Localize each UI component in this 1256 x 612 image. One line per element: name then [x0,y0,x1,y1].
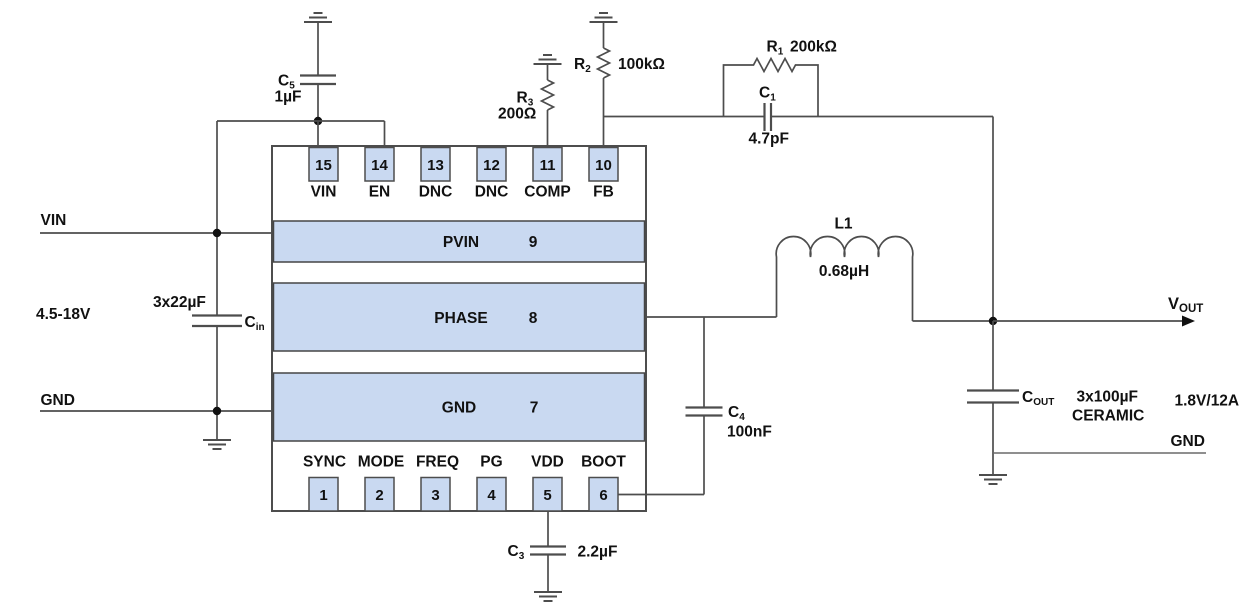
node VIN junction [213,229,221,237]
pin 5 box [533,478,562,512]
wire ground to R2 [603,22,605,48]
svg-text:L1: L1 [834,216,852,233]
resistor R1 (with bypass loop) [724,59,819,117]
wire junction down to pin 15 [317,121,319,148]
svg-text:4: 4 [487,487,496,504]
svg-text:100kΩ: 100kΩ [618,56,665,73]
svg-text:VDD: VDD [531,454,564,471]
capacitor C1 (series) [765,103,772,131]
svg-text:4.7pF: 4.7pF [749,131,789,148]
svg-text:BOOT: BOOT [581,454,626,471]
svg-text:GND: GND [1171,433,1205,450]
capacitor C4 [686,408,723,416]
band PHASE pin 8 [274,283,645,351]
wire C5 to junction [317,84,319,121]
pin 15 box [309,148,338,182]
svg-text:3: 3 [431,487,439,504]
pin 3 box [421,478,450,512]
ground (C3) [534,592,562,601]
svg-text:COMP: COMP [524,184,571,201]
svg-text:GND: GND [442,400,476,417]
wire rail down to pin 14 [384,121,386,148]
svg-text:3x22µF: 3x22µF [153,294,206,311]
svg-text:VIN: VIN [311,184,337,201]
svg-text:3x100µF: 3x100µF [1077,389,1139,406]
svg-text:5: 5 [543,487,551,504]
pin 10 box [589,148,618,182]
wire L1 to VOUT node [913,320,994,322]
svg-text:2: 2 [375,487,383,504]
svg-text:6: 6 [599,487,607,504]
wire FB rail down to VOUT node [992,117,994,322]
svg-text:11: 11 [540,157,556,174]
wire VIN input [40,232,272,234]
svg-text:12: 12 [483,157,500,174]
wire BOOT to C4 [618,494,704,496]
wire PHASE output [645,316,777,318]
svg-text:13: 13 [427,157,444,174]
wire left vertical x217 upper [216,121,218,316]
inductor L1 [776,236,913,321]
node VOUT junction [989,317,997,325]
svg-text:PVIN: PVIN [443,234,479,251]
svg-text:0.68µH: 0.68µH [819,263,869,280]
svg-text:10: 10 [595,157,612,174]
svg-text:4.5-18V: 4.5-18V [36,306,91,323]
svg-text:DNC: DNC [419,184,453,201]
svg-text:SYNC: SYNC [303,454,346,471]
capacitor C5 [300,76,336,85]
svg-text:FREQ: FREQ [416,454,459,471]
svg-text:14: 14 [371,157,388,174]
pin 14 box [365,148,394,182]
resistor R3 [542,80,554,110]
svg-text:1.8V/12A: 1.8V/12A [1175,393,1240,410]
wire R2 to pin 10 [603,78,605,148]
svg-text:7: 7 [530,400,539,417]
svg-text:200kΩ: 200kΩ [790,39,837,56]
resistor R2 [598,48,610,78]
IC body U1 [272,146,646,511]
svg-text:PHASE: PHASE [434,310,487,327]
wire horizontal rail y121 [217,120,385,122]
wire C4 branch lower [703,416,705,495]
wire GND output rail [993,452,1206,454]
svg-text:8: 8 [529,310,538,327]
ground (top of R2) [590,13,618,22]
svg-text:100nF: 100nF [727,424,772,441]
svg-text:1µF: 1µF [275,89,302,106]
svg-text:EN: EN [369,184,391,201]
ground (top of R3) [534,55,562,64]
wire C3 to ground [547,555,549,593]
ground (top of C5) [304,13,332,22]
svg-text:15: 15 [315,157,332,174]
capacitor C3 [530,547,566,555]
pin 12 box [477,148,506,182]
svg-text:DNC: DNC [475,184,509,201]
pin 2 box [365,478,394,512]
wire FB rail left of C1 [604,116,765,118]
wire ground to C5 [317,22,319,76]
svg-text:PG: PG [480,454,502,471]
svg-text:200Ω: 200Ω [498,106,536,123]
wire C4 branch upper [703,317,705,408]
ground (output) [979,475,1007,484]
svg-text:1: 1 [319,487,327,504]
capacitor COUT [967,391,1019,403]
node GND junction [213,407,221,415]
svg-text:VIN: VIN [41,212,67,229]
svg-text:GND: GND [41,392,75,409]
capacitor Cin [192,316,242,327]
pin 4 box [477,478,506,512]
band PVIN pin 9 [274,221,645,262]
wire VOUT arrow [993,320,1184,322]
pin 6 box [589,478,618,512]
svg-text:CERAMIC: CERAMIC [1072,408,1144,425]
ground (input rail) [203,440,231,449]
svg-text:9: 9 [529,234,538,251]
svg-text:2.2µF: 2.2µF [578,544,618,561]
svg-text:MODE: MODE [358,454,405,471]
pin 11 box [533,148,562,182]
band GND pin 7 [274,373,645,441]
wire ground to R3 [547,64,549,80]
pin 13 box [421,148,450,182]
pin 1 box [309,478,338,512]
svg-text:FB: FB [593,184,614,201]
wire VOUT node to COUT [992,321,994,391]
wire FB rail right of C1 [771,116,993,118]
wire R3 to pin 11 [547,110,549,148]
wire GND input [40,410,272,412]
wire pin 5 to C3 [547,511,549,547]
node junction C5/VIN rail [314,117,322,125]
wire left vertical x217 lower [216,326,218,440]
wire COUT to ground [992,403,994,476]
